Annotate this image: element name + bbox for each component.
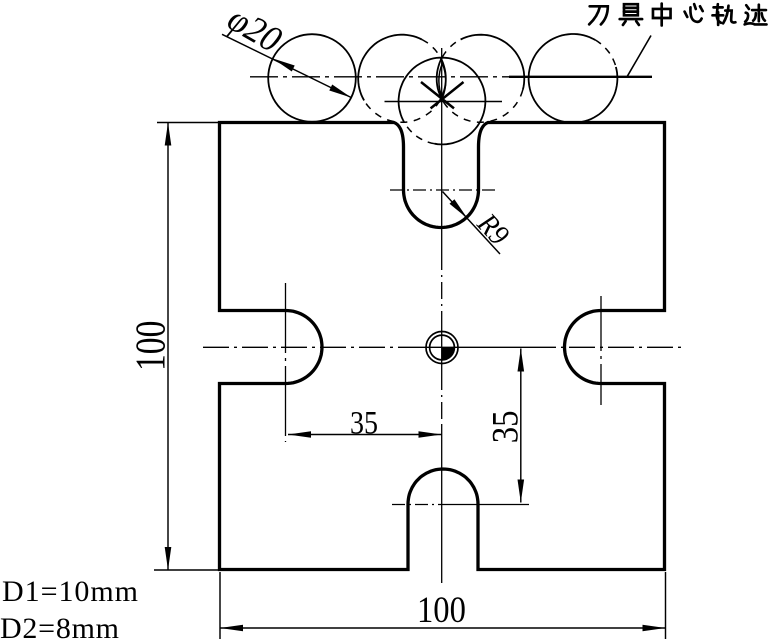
35 horizontal dimension line	[288, 434, 442, 436]
tool circle position 5 (solid, dashed upper right)	[529, 34, 618, 123]
tool circle plunged into top slot (position 3)	[399, 58, 486, 145]
bottom slot arc centerline	[392, 504, 443, 506]
tool circle position 2 (solid top, dashed bottom)	[358, 35, 422, 101]
svg-text:D2=8mm: D2=8mm	[0, 612, 119, 639]
workpiece origin symbol	[426, 332, 458, 364]
label char xin	[685, 4, 703, 22]
label char ju	[620, 4, 642, 25]
leader line to tool path label	[627, 36, 651, 77]
right slot arc centerline	[600, 296, 602, 405]
svg-text:100: 100	[128, 321, 174, 371]
horizontal centerline of part	[203, 346, 410, 348]
left 100 dimension: extension lines	[154, 123, 220, 571]
horizontal line through plunged tool center	[385, 101, 503, 103]
svg-text:φ20: φ20	[221, 0, 289, 60]
tool circle position 4 (solid top, dashed bottom)	[461, 35, 525, 90]
svg-text:D1=10mm: D1=10mm	[2, 575, 138, 608]
label char dao	[589, 6, 608, 24]
workpiece outline: 100x100 square with four slots	[220, 123, 665, 570]
tool circle position 1 (solid, phi20)	[268, 34, 356, 122]
phi20 diameter dimension line through tool circle 1	[222, 34, 351, 97]
bottom 100 dimension: extension lines	[220, 572, 666, 639]
35 vertical dimension line	[520, 349, 522, 503]
left 100 dimension line	[167, 123, 169, 571]
plunge point lens/arrow marker	[439, 64, 446, 99]
svg-text:35: 35	[350, 404, 378, 441]
bottom 100 dimension line	[220, 627, 666, 629]
label char gui	[712, 4, 735, 25]
tool path horizontal centerline	[250, 76, 509, 78]
svg-text:35: 35	[485, 410, 526, 443]
label char zhong	[653, 4, 671, 26]
plunge V arrowhead	[421, 82, 464, 108]
vertical centerline of part	[441, 48, 443, 253]
label char ji	[745, 5, 767, 25]
svg-text:100: 100	[417, 589, 466, 631]
top slot arc centerline	[390, 189, 495, 191]
R9 radius dimension line	[443, 192, 501, 255]
svg-text:R9: R9	[470, 207, 515, 252]
left slot arc centerline	[285, 283, 287, 442]
